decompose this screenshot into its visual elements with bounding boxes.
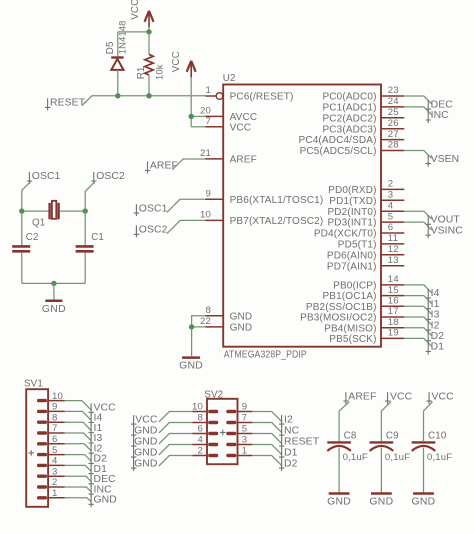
svg-text:GND: GND: [230, 323, 253, 334]
wire SV1 pin 2 to INC: [65, 487, 92, 492]
wire OSC1 node to C2: [21, 211, 23, 245]
wire SV2 pin 6 to GND: [159, 434, 192, 444]
wire SV2 pin 7 to NC: [252, 423, 282, 433]
svg-text:PD7(AIN1): PD7(AIN1): [327, 261, 377, 272]
pin 1 SV1: [37, 488, 65, 500]
svg-text:8: 8: [52, 412, 58, 423]
pin 5 SV1: [37, 445, 65, 457]
label D1 (SV2 right): [279, 447, 298, 460]
wire SV1 pin 1 to GND: [65, 498, 92, 502]
svg-text:27: 27: [388, 129, 399, 140]
svg-text:AREF: AREF: [348, 391, 376, 402]
wire C10 to ground: [423, 448, 425, 494]
pin 5 SV2 (right): [226, 424, 252, 435]
svg-text:PD0(RXD): PD0(RXD): [328, 185, 376, 196]
svg-text:D1: D1: [284, 447, 298, 458]
pin 27 PC4(ADC4/SDA) (right): [299, 129, 405, 146]
wire pin 28 to label VSEN: [404, 151, 431, 159]
pin 26 PC3(ADC3) (right): [322, 118, 404, 135]
svg-text:4: 4: [52, 456, 58, 467]
resistor R1 10k: [136, 54, 165, 80]
ground (C8): [327, 494, 351, 508]
svg-text:ATMEGA328P_PDIP: ATMEGA328P_PDIP: [224, 350, 307, 361]
connector SV2 body: [204, 390, 237, 465]
svg-text:OSC1: OSC1: [32, 171, 61, 182]
svg-text:25: 25: [388, 107, 399, 118]
svg-text:PB1(OC1A): PB1(OC1A): [322, 291, 376, 302]
pin 1 SV2 (right): [226, 446, 252, 457]
wire SV1 pin 9 to I4: [65, 411, 92, 420]
pin 9 PB6(XTAL1/TOSC1) (left): [205, 188, 323, 206]
svg-text:OSC1: OSC1: [139, 203, 168, 214]
wire SV2 pin 4 to GND: [159, 445, 192, 455]
svg-text:I1: I1: [431, 299, 440, 310]
label D2 (SV2 right): [279, 458, 298, 471]
wire SV1 pin 4 to D1: [65, 465, 92, 471]
label I2 (SV2 right): [279, 414, 293, 427]
svg-text:PC6(/RESET): PC6(/RESET): [230, 92, 294, 103]
svg-text:INC: INC: [431, 110, 450, 121]
pin 7 SV2 (right): [226, 413, 252, 424]
label INC (SV1): [89, 484, 113, 497]
svg-text:1N4148: 1N4148: [116, 20, 127, 54]
wire SV2 pin 10 to VCC: [159, 412, 192, 422]
label I3 (SV1): [89, 433, 103, 446]
pin 10 PB7(XTAL2/TOSC2) (left): [200, 209, 323, 227]
wire SV2 pin 8 to GND: [159, 423, 192, 433]
label AREF (pin 21): [145, 161, 178, 174]
svg-text:VSINC: VSINC: [431, 225, 464, 236]
label GND (SV2 left): [131, 447, 158, 460]
svg-text:D5: D5: [105, 41, 116, 54]
svg-text:PC0(ADC0): PC0(ADC0): [322, 92, 376, 103]
svg-text:PB4(MISO): PB4(MISO): [324, 323, 376, 334]
svg-text:2: 2: [198, 446, 204, 457]
svg-text:VSEN: VSEN: [431, 154, 460, 165]
pin 2 SV2 (left): [192, 446, 218, 457]
node junction OSC1/C2: [19, 208, 24, 213]
svg-text:3: 3: [52, 466, 58, 477]
pin 28 PC5(ADC5/SCL) (right): [300, 140, 405, 157]
label VCC (above C10): [427, 391, 455, 404]
svg-text:PC5(ADC5/SCL): PC5(ADC5/SCL): [300, 146, 377, 157]
svg-text:19: 19: [388, 328, 399, 339]
pin 8 SV2 (left): [192, 413, 218, 424]
ground (crystal): [42, 301, 66, 315]
pin 9 SV1: [37, 402, 65, 414]
pin 7 VCC (left): [205, 116, 251, 134]
wire pin 23 to label DEC: [404, 96, 431, 104]
node junction OSC2/C1: [83, 208, 88, 213]
pin 5 PD3(INT1) (right): [327, 211, 404, 228]
label I4 (SV1): [89, 413, 103, 426]
node junction D5/reset: [115, 93, 120, 98]
pin 11 PD5(T1) (right): [338, 233, 405, 250]
svg-text:C9: C9: [386, 431, 399, 442]
label I4: [426, 288, 440, 301]
pin 20 AVCC (left): [200, 105, 257, 123]
label OSC1 (pin 9): [134, 203, 168, 216]
wire VCC to C10: [424, 402, 433, 441]
wire pin 22 GND: [192, 326, 206, 328]
svg-text:21: 21: [200, 148, 211, 159]
svg-text:D2: D2: [284, 458, 298, 469]
svg-text:C1: C1: [91, 232, 104, 243]
svg-text:GND: GND: [179, 361, 203, 372]
svg-text:PB6(XTAL1/TOSC1): PB6(XTAL1/TOSC1): [230, 195, 324, 206]
label GND (SV2 left): [131, 458, 158, 471]
pin 2 SV1: [37, 477, 65, 488]
svg-text:28: 28: [388, 140, 399, 151]
svg-text:0,1uF: 0,1uF: [427, 452, 452, 463]
svg-text:AREF: AREF: [230, 155, 257, 166]
wire SV1 pin 10 to VCC: [65, 401, 92, 411]
label VCC (above C9): [385, 391, 413, 404]
svg-text:GND: GND: [94, 495, 117, 506]
pin 3 SV1: [37, 466, 65, 478]
pin 15 PB1(OC1A) (right): [322, 285, 404, 302]
connector SV1 body: [24, 379, 48, 507]
svg-text:0,1uF: 0,1uF: [385, 452, 410, 463]
svg-text:VCC: VCC: [135, 414, 158, 425]
svg-text:VCC: VCC: [390, 391, 413, 402]
svg-text:PC2(ADC2): PC2(ADC2): [322, 113, 376, 124]
svg-text:OSC2: OSC2: [96, 171, 125, 182]
wire to pin 20 AVCC: [191, 115, 205, 117]
op-amp U2 ATMEGA328P_PDIP body: [223, 73, 381, 360]
svg-text:26: 26: [388, 118, 399, 129]
svg-text:PB7(XTAL2/TOSC2): PB7(XTAL2/TOSC2): [230, 216, 324, 227]
wire VCC down to AVCC: [190, 77, 192, 127]
label OSC1 (crystal top): [27, 171, 61, 184]
svg-text:5: 5: [388, 211, 394, 222]
svg-text:GND: GND: [134, 425, 157, 436]
pin 4 SV2 (left): [192, 435, 218, 446]
pin 14 PB0(ICP) (right): [333, 274, 404, 291]
svg-text:D1: D1: [431, 342, 445, 353]
svg-text:14: 14: [388, 274, 399, 285]
crystal Q1: [32, 201, 59, 229]
label VOUT: [426, 215, 461, 228]
pin 6 SV1: [37, 434, 65, 446]
wire SV2 pin 3 to D1: [252, 445, 282, 455]
svg-text:R1: R1: [136, 66, 147, 79]
svg-text:6: 6: [198, 424, 204, 435]
wire R1 bottom to reset line: [148, 75, 150, 96]
wire C9 to ground: [380, 448, 382, 494]
pin 10 SV2 (left): [192, 402, 218, 413]
wire OSC2 down: [85, 182, 95, 211]
wire R1 top: [148, 32, 150, 54]
svg-text:1: 1: [242, 446, 248, 457]
svg-text:6: 6: [52, 434, 58, 445]
wire to pin 7 VCC: [191, 126, 205, 128]
wire SV1 pin 8 to I1: [65, 422, 92, 430]
wire pin 8 GND: [192, 316, 206, 356]
svg-text:15: 15: [388, 285, 399, 296]
svg-text:GND: GND: [42, 304, 66, 315]
capacitor C1: [76, 232, 104, 251]
wire pin 19 to label D1: [404, 338, 431, 346]
wire SV2 pin 1 to D2: [252, 456, 282, 466]
svg-text:GND: GND: [412, 497, 436, 508]
label OSC2 (crystal top): [91, 171, 125, 184]
label I1 (SV1): [89, 423, 103, 436]
label RESET (SV2 right): [279, 436, 320, 449]
svg-text:RESET: RESET: [50, 98, 86, 109]
svg-text:9: 9: [242, 402, 248, 413]
svg-text:PC1(ADC1): PC1(ADC1): [322, 103, 376, 114]
svg-text:1: 1: [52, 488, 58, 499]
wire C8 to ground: [338, 448, 340, 494]
svg-text:23: 23: [388, 85, 399, 96]
svg-text:GND: GND: [134, 436, 157, 447]
svg-text:22: 22: [200, 316, 211, 327]
svg-text:24: 24: [388, 96, 399, 107]
wire junction to D5 top: [118, 31, 149, 33]
wire OSC1 to pin 9: [167, 199, 205, 212]
svg-text:4: 4: [198, 435, 204, 446]
capacitor C8 0,1uF: [327, 431, 368, 463]
label AREF (above C8): [343, 391, 376, 404]
pin 4 SV1: [37, 456, 65, 468]
label VCC (SV1): [89, 403, 117, 416]
pin 13 PD7(AIN1) (right): [327, 255, 404, 272]
label GND (SV2 left): [131, 425, 158, 438]
svg-text:AREF: AREF: [150, 161, 178, 172]
svg-text:VOUT: VOUT: [431, 215, 461, 226]
wire OSC2 node to C1: [84, 211, 86, 245]
wire SV1 pin 7 to I3: [65, 433, 92, 441]
diode D5 1N4148: [105, 20, 128, 69]
svg-text:10: 10: [52, 391, 63, 402]
wire OSC1 down: [22, 182, 31, 211]
svg-text:18: 18: [388, 317, 399, 328]
svg-text:VCC: VCC: [432, 391, 455, 402]
ground (C10): [412, 494, 436, 508]
label D2: [426, 331, 445, 344]
wire OSC2 to pin 10: [167, 220, 205, 233]
svg-text:16: 16: [388, 296, 399, 307]
pin 8 SV1: [37, 412, 65, 424]
label I2 (SV1): [89, 443, 103, 456]
pin 9 SV2 (right): [226, 402, 252, 413]
svg-text:4: 4: [388, 200, 394, 211]
wire pin 16 to label I3: [404, 306, 431, 314]
svg-text:PB0(ICP): PB0(ICP): [333, 281, 376, 292]
svg-text:8: 8: [198, 413, 204, 424]
wire C2 bottom: [21, 253, 23, 284]
wire D5 cathode up: [117, 32, 119, 58]
wire crystal right: [59, 210, 86, 212]
svg-text:VCC: VCC: [171, 51, 182, 72]
svg-text:7: 7: [52, 423, 58, 434]
svg-text:D2: D2: [431, 331, 445, 342]
pin 6 PD4(XCK/T0) (right): [314, 222, 404, 239]
svg-text:9: 9: [52, 402, 58, 413]
pin 7 SV1: [37, 423, 65, 434]
wire AREF to pin 21: [172, 159, 205, 170]
svg-text:3: 3: [388, 190, 394, 201]
label D1 (SV1): [89, 464, 108, 477]
pin 16 PB2(SS/OC1B) (right): [306, 296, 404, 313]
svg-text:2: 2: [52, 477, 58, 488]
pin 25 PC2(ADC2) (right): [322, 107, 404, 124]
label DEC: [426, 99, 454, 112]
svg-text:Q1: Q1: [32, 218, 45, 229]
svg-text:17: 17: [388, 306, 399, 317]
svg-text:2: 2: [388, 179, 394, 190]
svg-text:13: 13: [388, 255, 399, 266]
svg-text:RESET: RESET: [284, 436, 320, 447]
wire AREF to C8: [339, 402, 349, 441]
wire bottom bus: [22, 282, 85, 284]
svg-text:10k: 10k: [154, 64, 165, 80]
label I3: [426, 310, 440, 323]
label VCC (SV2 left): [131, 414, 158, 427]
node junction gnd bus: [51, 281, 56, 286]
svg-text:11: 11: [388, 233, 398, 244]
node junction VCC/R1/D5: [146, 29, 151, 34]
svg-text:PC4(ADC4/SDA): PC4(ADC4/SDA): [299, 135, 377, 146]
svg-text:PD3(INT1): PD3(INT1): [327, 218, 376, 229]
power symbol VCC (AVCC/VCC): [171, 51, 196, 77]
wire D5 anode down to reset line: [117, 70, 119, 96]
wire down to ground: [53, 283, 55, 300]
svg-text:PD1(TXD): PD1(TXD): [329, 196, 376, 207]
svg-text:PB5(SCK): PB5(SCK): [329, 334, 376, 345]
label GND (SV1): [89, 495, 117, 508]
svg-text:C10: C10: [428, 431, 447, 442]
svg-text:I2: I2: [431, 320, 440, 331]
capacitor C9 0,1uF: [370, 431, 411, 463]
pin 6 SV2 (left): [192, 424, 218, 435]
wire SV1 pin 6 to I2: [65, 444, 92, 451]
svg-text:6: 6: [388, 222, 394, 233]
svg-text:GND: GND: [327, 497, 351, 508]
svg-text:GND: GND: [230, 311, 253, 322]
wire crystal left: [22, 210, 50, 212]
wire SV2 pin 2 to GND: [159, 456, 192, 466]
svg-text:0,1uF: 0,1uF: [343, 452, 368, 463]
pin 22 GND (left): [200, 316, 252, 334]
svg-text:GND: GND: [134, 447, 157, 458]
svg-text:GND: GND: [369, 497, 393, 508]
pin 1 PC6(/RESET) (left): [205, 85, 293, 103]
pin 24 PC1(ADC1) (right): [322, 96, 404, 113]
svg-text:7: 7: [206, 116, 212, 127]
label D2 (SV1): [89, 454, 108, 467]
svg-text:PB3(MOSI/OC2): PB3(MOSI/OC2): [300, 313, 376, 324]
svg-text:C2: C2: [26, 232, 39, 243]
svg-text:5: 5: [52, 445, 58, 456]
svg-text:GND: GND: [134, 458, 157, 469]
label OSC2 (pin 10): [134, 225, 168, 238]
svg-text:AVCC: AVCC: [230, 112, 258, 123]
svg-text:C8: C8: [344, 431, 357, 442]
svg-text:I2: I2: [284, 414, 293, 425]
wire SV2 pin 5 to RESET: [252, 434, 282, 444]
svg-text:PD5(T1): PD5(T1): [338, 240, 377, 251]
pin 17 PB3(MOSI/OC2) (right): [300, 306, 404, 323]
svg-text:SV1: SV1: [24, 379, 43, 390]
svg-text:VCC: VCC: [230, 122, 252, 133]
node junction AVCC: [189, 114, 194, 119]
svg-text:OSC2: OSC2: [139, 225, 168, 236]
ground (below U2): [179, 358, 203, 372]
svg-text:20: 20: [200, 105, 211, 116]
capacitor C2: [12, 232, 38, 251]
svg-text:5: 5: [242, 424, 248, 435]
wire pin 24 to label INC: [404, 107, 431, 115]
svg-text:3: 3: [242, 435, 248, 446]
label I2: [426, 320, 440, 333]
svg-text:12: 12: [388, 244, 399, 255]
label INC: [426, 110, 450, 123]
svg-text:PD4(XCK/T0): PD4(XCK/T0): [314, 229, 377, 240]
label VSINC: [426, 225, 464, 238]
node junction R1/reset: [146, 93, 151, 98]
svg-text:1: 1: [206, 85, 212, 96]
power symbol VCC (above R1): [130, 0, 154, 27]
svg-text:I4: I4: [431, 288, 440, 299]
pin 10 SV1: [37, 391, 65, 403]
label DEC (SV1): [89, 474, 117, 487]
label I1: [426, 299, 440, 312]
capacitor C10 0,1uF: [412, 431, 453, 463]
svg-text:SV2: SV2: [204, 390, 223, 401]
wire VCC stem to junction: [148, 27, 150, 32]
pin 2 PD0(RXD) (right): [328, 179, 404, 196]
wire pin 17 to label I2: [404, 317, 431, 325]
pin 12 PD6(AIN0) (right): [327, 244, 404, 261]
label D1: [426, 342, 445, 355]
svg-text:10: 10: [200, 209, 211, 220]
svg-text:PD6(AIN0): PD6(AIN0): [327, 250, 377, 261]
wire C1 bottom: [84, 253, 86, 284]
svg-text:PD2(INT0): PD2(INT0): [327, 207, 376, 218]
node junction GND: [189, 324, 194, 329]
pin 3 SV2 (right): [226, 435, 252, 446]
label GND (SV2 left): [131, 436, 158, 449]
svg-text:NC: NC: [284, 425, 300, 436]
pin 21 AREF (left): [200, 148, 257, 166]
pin 23 PC0(ADC0) (right): [322, 85, 404, 102]
wire VCC to C9: [381, 402, 391, 441]
label RESET: [45, 98, 86, 111]
wire RESET label to pin 1: [82, 96, 205, 106]
label NC (SV2 right): [279, 425, 300, 438]
svg-text:9: 9: [206, 188, 212, 199]
wire SV2 pin 9 to I2: [252, 412, 282, 422]
label VSEN: [426, 154, 460, 167]
wire SV1 pin 3 to DEC: [65, 476, 92, 481]
svg-text:I3: I3: [431, 310, 440, 321]
svg-text:DEC: DEC: [431, 99, 454, 110]
pin 8 GND (left): [205, 305, 252, 323]
ground (C9): [369, 494, 393, 508]
svg-text:PB2(SS/OC1B): PB2(SS/OC1B): [306, 302, 377, 313]
wire pin 5 to label VSINC: [404, 222, 431, 230]
svg-text:PC3(ADC3): PC3(ADC3): [322, 124, 376, 135]
svg-text:VCC: VCC: [130, 0, 141, 20]
pin 19 PB5(SCK) (right): [329, 328, 404, 345]
svg-text:U2: U2: [223, 73, 236, 84]
svg-text:7: 7: [242, 413, 248, 424]
pin 18 PB4(MISO) (right): [324, 317, 404, 334]
wire SV1 pin 5 to D2: [65, 455, 92, 462]
wire pin 18 to label D2: [404, 328, 431, 336]
